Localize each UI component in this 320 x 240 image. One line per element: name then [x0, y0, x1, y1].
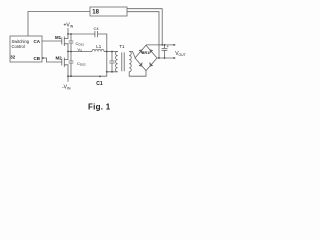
svg-text:-VIN: -VIN — [62, 85, 71, 91]
junction node VS — [67, 51, 69, 53]
wire CA to M1 gate — [42, 40, 62, 42]
svg-text:VS: VS — [78, 47, 83, 53]
diode BR1 upper-right — [150, 50, 153, 53]
junction node C3 bottom — [70, 75, 72, 77]
wire switch node — [68, 51, 92, 53]
wire output negative rail — [157, 57, 176, 59]
junction node CF top — [164, 44, 166, 46]
diode BR1 upper-left — [139, 50, 142, 53]
svg-text:Fig. 1: Fig. 1 — [88, 103, 111, 112]
svg-text:CDS1: CDS1 — [76, 41, 85, 47]
transformer T1 primary — [116, 52, 118, 72]
svg-text:M2: M2 — [56, 56, 63, 61]
wire bottom rail — [68, 75, 107, 77]
wire top rail right — [98, 34, 107, 52]
transistor M1 — [62, 34, 68, 52]
power +VIN stub — [67, 28, 69, 34]
junction node C1 top — [111, 51, 113, 53]
svg-text:BR1: BR1 — [142, 51, 150, 55]
svg-text:VOUT: VOUT — [175, 51, 186, 57]
wire secondary bottom lead — [129, 71, 146, 77]
terminal node out+ — [173, 44, 175, 46]
wire top rail left — [68, 33, 95, 35]
svg-text:CA: CA — [34, 39, 41, 44]
junction node rail mid — [99, 76, 101, 78]
svg-text:C4: C4 — [94, 26, 100, 31]
diode BR1 lower-left — [139, 63, 142, 66]
transformer T1 core — [122, 52, 124, 71]
wire feedback sense A — [127, 9, 162, 45]
junction node A left — [106, 51, 108, 53]
junction node CB exit — [42, 57, 44, 59]
junction node -VIN — [67, 75, 69, 77]
junction node return bottom — [106, 71, 108, 73]
junction node +VIN — [67, 33, 69, 35]
capacitor C4 series — [95, 31, 98, 37]
wire primary return drop — [107, 52, 118, 77]
capacitor C1 branch — [109, 52, 114, 72]
svg-text:18: 18 — [92, 9, 99, 15]
transformer T1 secondary — [129, 52, 131, 72]
svg-text:C1: C1 — [96, 81, 103, 87]
wire node A — [104, 51, 118, 53]
wire feedback sense B — [127, 12, 159, 58]
power -VIN stub — [67, 76, 69, 82]
svg-text:T1: T1 — [119, 44, 125, 49]
junction node C3 top — [70, 51, 72, 53]
feedback block 18 — [90, 7, 127, 16]
capacitor CF output — [162, 45, 168, 58]
svg-text:M1: M1 — [55, 35, 62, 40]
svg-text:Control: Control — [12, 44, 25, 49]
diode BR1 lower-right — [150, 63, 153, 66]
wire output positive rail — [146, 44, 176, 46]
inductor L1 — [92, 49, 104, 51]
rectifier bridge BR1 — [135, 45, 157, 70]
svg-text:32: 32 — [10, 55, 16, 60]
junction node CF bottom — [164, 57, 166, 59]
svg-text:CDS2: CDS2 — [77, 61, 86, 67]
transistor M2 — [62, 52, 68, 77]
capacitor C3 branch — [69, 52, 74, 77]
svg-text:L1: L1 — [96, 44, 101, 49]
wire secondary top lead — [129, 52, 135, 59]
junction node fb A — [161, 44, 163, 46]
capacitor C2 branch — [69, 34, 74, 52]
terminal node out- — [173, 57, 175, 59]
wire CB to M2 gate — [42, 58, 62, 62]
junction node C2 top — [70, 33, 72, 35]
junction node fb B — [158, 57, 160, 59]
junction node C1 bottom — [111, 71, 113, 73]
svg-text:CB: CB — [34, 56, 41, 61]
wire feedback left run — [28, 12, 90, 37]
svg-text:+VIN: +VIN — [64, 23, 74, 29]
switching control block 32 — [10, 36, 42, 62]
